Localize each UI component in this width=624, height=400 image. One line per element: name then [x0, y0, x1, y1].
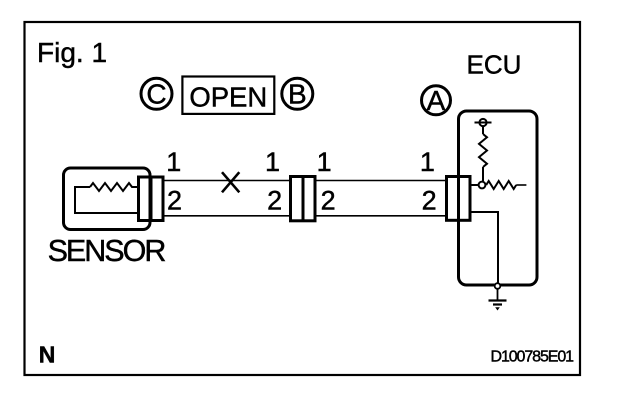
- label A (circled): [422, 85, 451, 116]
- svg-text:OPEN: OPEN: [189, 82, 267, 113]
- wire (connector A pin 1 to node): [470, 184, 478, 186]
- wire 1 (connector B to connector A): [316, 180, 447, 182]
- ground: [489, 289, 507, 311]
- connector B (middle): [291, 177, 316, 221]
- svg-text:D100785E01: D100785E01: [491, 348, 575, 365]
- svg-text:B: B: [288, 79, 307, 110]
- open fault X mark: [222, 172, 239, 192]
- connector C (sensor side): [139, 177, 164, 221]
- resistor (pull-up, vertical): [479, 134, 487, 167]
- label C (circled): [141, 78, 172, 109]
- wire (sensor internal loop): [75, 187, 137, 213]
- svg-text:N: N: [39, 342, 56, 368]
- resistor (series input, horizontal): [486, 181, 516, 189]
- svg-text:1: 1: [317, 147, 332, 177]
- svg-text:1: 1: [166, 147, 181, 177]
- wire (series resistor lead): [516, 184, 526, 186]
- wire (pull-up to node): [482, 167, 484, 181]
- wire (connector A pin 2 to ground): [470, 212, 498, 283]
- wire (terminal to pull-up resistor): [482, 126, 484, 134]
- ECU box: [459, 111, 538, 285]
- svg-text:Fig. 1: Fig. 1: [37, 37, 107, 68]
- wire 2 (connector C to connector B): [164, 215, 290, 217]
- svg-text:2: 2: [321, 185, 336, 215]
- wire 2 (connector B to connector A): [316, 215, 447, 217]
- label OPEN: [182, 77, 274, 114]
- connector A (ECU side): [447, 177, 471, 221]
- svg-text:2: 2: [167, 185, 182, 215]
- resistor (sensor element): [90, 183, 137, 191]
- ground node (on ECU bottom edge): [495, 283, 501, 289]
- node (input junction): [479, 182, 486, 189]
- svg-text:2: 2: [267, 185, 282, 215]
- svg-text:C: C: [146, 79, 166, 110]
- svg-text:1: 1: [265, 147, 280, 177]
- wire 1 (connector C to connector B): [164, 180, 290, 182]
- svg-text:1: 1: [420, 147, 435, 177]
- power terminal (circle with bar): [475, 119, 492, 126]
- sensor box: [64, 168, 151, 230]
- label B (circled): [282, 78, 313, 109]
- svg-text:ECU: ECU: [467, 50, 522, 80]
- svg-text:A: A: [427, 85, 446, 116]
- svg-text:SENSOR: SENSOR: [48, 234, 166, 268]
- svg-text:2: 2: [422, 185, 437, 215]
